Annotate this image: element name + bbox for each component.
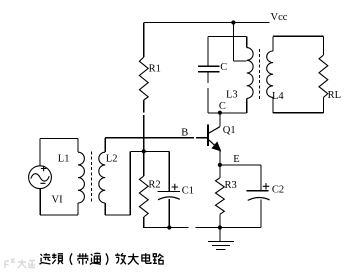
wire bottom rail: [143, 227, 261, 229]
watermark bottom-left: [5, 259, 35, 268]
inductor L3: [246, 36, 248, 113]
svg-text:L1: L1: [58, 153, 70, 164]
char 通: [90, 253, 101, 264]
char 大: [128, 253, 139, 264]
svg-text:R1: R1: [149, 64, 161, 75]
inductor L4: [272, 36, 274, 113]
node bias junction: [142, 149, 146, 153]
inductor L2: [105, 138, 130, 215]
char 频: [52, 253, 63, 264]
transistor Q1: [207, 125, 209, 147]
char 路: [153, 254, 164, 264]
wire tank bottom (collector): [208, 112, 247, 114]
svg-text:L4: L4: [272, 91, 284, 102]
resistor R2: [143, 151, 145, 176]
char 带: [77, 253, 88, 264]
svg-text:RL: RL: [328, 90, 341, 101]
node R3 ground junction: [218, 225, 222, 229]
wire source loop: [40, 138, 78, 215]
char 选: [40, 253, 51, 264]
svg-text:L2: L2: [106, 154, 118, 165]
svg-text:C2: C2: [272, 184, 284, 195]
svg-text:R2: R2: [148, 180, 160, 191]
wire Vcc drop to L3 tap: [233, 23, 246, 62]
char 电: [142, 253, 151, 263]
svg-text:L3: L3: [226, 89, 238, 100]
wire base (L2 top to Q1 base): [105, 137, 207, 139]
svg-text:Q1: Q1: [223, 125, 236, 136]
char ）: [106, 253, 108, 264]
wire L2 bottom to bias node: [130, 151, 169, 215]
node Vcc junction: [231, 20, 235, 24]
svg-text:E: E: [233, 154, 239, 165]
capacitor C (tank): [198, 36, 220, 113]
wire top rail: [144, 22, 270, 24]
svg-text:C: C: [219, 101, 226, 112]
node collector: [218, 111, 222, 115]
resistor R1: [143, 23, 145, 58]
resistor RL: [322, 36, 324, 55]
wire tank top: [208, 35, 247, 37]
transformer core L1/L2 dashed: [91, 152, 93, 204]
capacitor C2: [247, 191, 269, 228]
wire output bottom: [273, 112, 323, 114]
capacitor C1: [158, 151, 180, 227]
svg-text:Vcc: Vcc: [271, 12, 288, 23]
svg-text:VI: VI: [52, 194, 64, 205]
svg-text:C1: C1: [182, 186, 194, 197]
svg-text:C: C: [220, 62, 227, 73]
char （: [70, 253, 72, 264]
svg-text:B: B: [181, 128, 188, 139]
svg-text:R3: R3: [225, 180, 237, 191]
wire output top: [273, 35, 323, 37]
wire emitter: [220, 150, 261, 190]
transformer core L3/L4 dashed: [259, 49, 261, 100]
source VI: [29, 166, 52, 189]
resistor R3: [219, 165, 221, 178]
title 选频（带通）放大电路 drawn as strokes: [40, 253, 164, 265]
node emitter junction: [218, 163, 222, 167]
node C1 ground junction: [167, 225, 171, 229]
char 放: [115, 253, 126, 264]
ground: [208, 228, 234, 250]
inductor L1: [77, 138, 79, 215]
